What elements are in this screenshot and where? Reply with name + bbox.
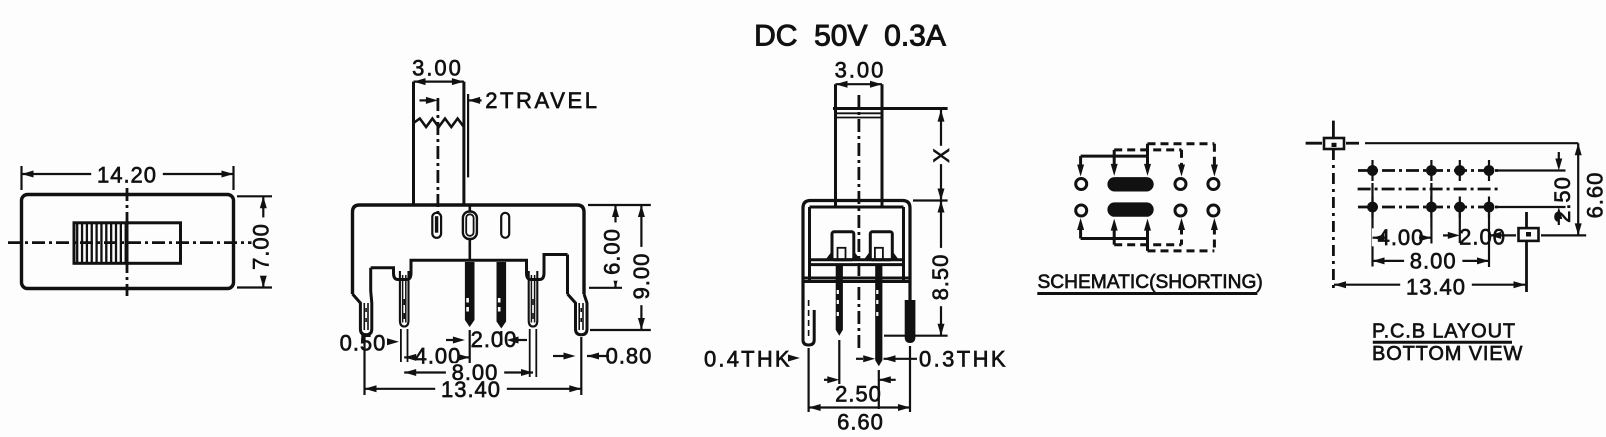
schematic bottom solid wire: [1081, 237, 1148, 240]
side ext line body top: [913, 199, 948, 201]
top view body outline: [22, 195, 234, 289]
side frame inner top: [810, 206, 904, 209]
front pin 2 (black): [465, 262, 475, 327]
svg-text:2.50: 2.50: [1550, 176, 1575, 223]
side stem right edge: [881, 84, 884, 207]
pcb mount hole 1 symbol: [1324, 138, 1344, 149]
front body outline: [353, 205, 585, 294]
side dim X: [940, 110, 942, 201]
front ext line left leg: [363, 337, 365, 395]
pcb pad top row 3: [1454, 165, 1465, 176]
pcb mount hole 2 leader line: [1541, 234, 1586, 236]
side left leg: [803, 310, 814, 345]
dim 14.20 extension lines: [20, 166, 22, 190]
schematic top wire to bar left: [1113, 150, 1116, 168]
svg-text:6.60: 6.60: [1582, 172, 1606, 219]
schematic top solid wire: [1081, 155, 1148, 158]
pcb pad top row 2: [1426, 165, 1437, 176]
schematic bottom dashed wire pos2: [1114, 243, 1181, 246]
pcb dim 8.00: [1373, 260, 1490, 262]
front dim 3.00 line: [414, 80, 464, 82]
front ext line foot bottom: [590, 329, 651, 331]
schematic shorting bar bottom: [1107, 202, 1153, 216]
front slot 2 (stem cross-section): [463, 212, 477, 240]
pcb mount hole 1 v-centerline: [1332, 121, 1335, 138]
pcb ext line pad2: [1430, 183, 1432, 244]
front ext line body top right: [588, 204, 651, 206]
front ext line pin4: [529, 329, 531, 377]
schematic shorting bar top: [1107, 177, 1153, 191]
front dim 2.00: [446, 339, 453, 341]
pcb title underline: [1373, 341, 1512, 344]
svg-text:8.50: 8.50: [928, 254, 953, 301]
pcb mount hole 2 symbol: [1519, 228, 1539, 241]
dim 14.20 line: [22, 173, 234, 175]
front ext line pin2: [469, 330, 471, 363]
dim 7.00 line: [262, 196, 264, 287]
front stem right edge: [462, 82, 465, 205]
front right leg slot: [578, 303, 580, 330]
front stem left edge: [412, 82, 415, 205]
side dim 6.60 ext lines: [807, 348, 809, 412]
front dim 13.40: [365, 388, 582, 390]
front pin 4: [529, 271, 538, 327]
schematic top dashed wire pos3: [1148, 142, 1215, 145]
svg-text:3.00: 3.00: [835, 57, 886, 82]
svg-text:X: X: [929, 147, 954, 163]
front dim 4.00: [409, 347, 467, 365]
front right leg: [568, 294, 588, 335]
top view horizontal centerline: [8, 241, 252, 244]
svg-text:13.40: 13.40: [441, 377, 501, 402]
front travel arrows: [426, 97, 438, 104]
dim 14.20 text: [91, 166, 163, 184]
svg-text:13.40: 13.40: [1406, 274, 1466, 299]
pcb top row centerline: [1358, 169, 1500, 172]
side stem top line: [833, 107, 948, 110]
schematic terminal 4 top: [1208, 179, 1219, 190]
pcb mount hole 2 v-centerline: [1525, 212, 1528, 228]
svg-text:3.00: 3.00: [412, 55, 463, 80]
pcb middle centerline: [1358, 188, 1500, 191]
front stem break zigzag: [414, 119, 464, 128]
side contact post right: [870, 232, 892, 260]
front internal stem line: [468, 205, 471, 212]
front left leg slot: [363, 303, 365, 330]
svg-text:2.00: 2.00: [1459, 224, 1506, 249]
schematic bottom dashed wire pos3: [1148, 249, 1215, 252]
side dim 8.50: [940, 201, 942, 336]
pcb ext line bottom row (2.50): [1497, 206, 1566, 208]
side dim 2.50 ext lines: [838, 340, 840, 384]
front pin 3 (black): [497, 262, 507, 329]
front left leg: [353, 291, 372, 335]
front dim 9.00: [640, 205, 642, 330]
pcb pad top row 1: [1367, 165, 1378, 176]
front ext line pin1: [400, 329, 402, 362]
pcb dim 2.00: [1448, 232, 1460, 239]
svg-text:P.C.B LAYOUT: P.C.B LAYOUT: [1372, 320, 1516, 342]
pcb ext line pad1: [1371, 183, 1373, 267]
schematic top dashed wire pos2: [1114, 148, 1181, 151]
svg-text:0.3THK: 0.3THK: [919, 346, 1008, 371]
pcb dim 2.50: [1558, 152, 1560, 161]
svg-text:2TRAVEL: 2TRAVEL: [485, 88, 599, 113]
schematic terminal 3 top: [1175, 179, 1186, 190]
side frame outline: [803, 201, 910, 311]
pcb pad bottom row 4: [1484, 202, 1495, 213]
front plate right inner edge: [566, 255, 569, 295]
pcb ext line pad3: [1459, 213, 1461, 243]
top view slider knob (hatched): [74, 223, 127, 263]
svg-text:2.50: 2.50: [835, 381, 882, 406]
side post inner pin right: [875, 248, 883, 260]
pcb top extension line (6.60): [1346, 142, 1359, 145]
pcb bottom row centerline: [1358, 206, 1500, 209]
pcb dim 6.60: [1577, 143, 1579, 235]
side base plate: [810, 258, 904, 261]
side frame inner right: [902, 207, 905, 281]
top view knob window: [127, 223, 181, 263]
svg-text:14.20: 14.20: [97, 162, 157, 187]
schematic terminal 4 bottom: [1208, 205, 1219, 216]
pcb pad bottom row 1: [1367, 202, 1378, 213]
top view vertical centerline: [126, 188, 129, 296]
svg-text:DC 50V 0.3A: DC 50V 0.3A: [754, 20, 946, 53]
svg-text:6.60: 6.60: [837, 409, 884, 434]
pcb ext line top row (2.50): [1497, 169, 1566, 171]
svg-text:0.4THK: 0.4THK: [704, 346, 792, 371]
svg-text:BOTTOM VIEW: BOTTOM VIEW: [1372, 343, 1523, 365]
front ext line frame bottom: [589, 287, 622, 289]
side dim 3.00 line: [836, 83, 883, 85]
side ext line pin bottom: [884, 335, 948, 337]
dim 7.00 extension lines: [237, 195, 272, 197]
side contact post left: [832, 232, 854, 260]
pcb mount hole 1 h-centerline: [1306, 142, 1322, 145]
side stem cap lines: [836, 112, 882, 114]
side stem centerline: [858, 95, 861, 350]
svg-text:0.50: 0.50: [340, 330, 387, 355]
side dim 2.50 arrows: [824, 379, 828, 381]
side right leg (black): [905, 300, 916, 343]
side label 0.3THK: [856, 358, 863, 360]
schematic terminal 1 top: [1076, 179, 1087, 190]
schematic title underline: [1037, 292, 1257, 295]
schematic terminal 1 bottom: [1076, 205, 1087, 216]
front plate bottom edge: [371, 255, 568, 280]
front stem centerline: [436, 98, 439, 216]
front dim 8.00: [404, 371, 533, 373]
svg-text:0.80: 0.80: [606, 343, 653, 368]
dim 7.00 text: [252, 217, 270, 275]
pcb pad bottom row 3: [1454, 202, 1465, 213]
pcb pad bottom row 2: [1426, 202, 1437, 213]
front pin 1: [400, 271, 409, 327]
svg-text:7.00: 7.00: [248, 223, 273, 270]
side post foot flares: [826, 251, 833, 260]
svg-text:SCHEMATIC(SHORTING): SCHEMATIC(SHORTING): [1038, 272, 1263, 293]
side pin row1 (short): [836, 266, 843, 336]
front dim 0.80: [564, 353, 576, 360]
front travel extension line: [467, 94, 469, 177]
front slot 1: [432, 213, 441, 238]
svg-text:8.00: 8.00: [1410, 248, 1457, 273]
pcb ext line pad4: [1488, 213, 1490, 267]
front ext line pin3: [500, 331, 502, 345]
front slot 3: [501, 213, 509, 238]
side dim 6.60 line: [809, 406, 910, 408]
side pin row2 (long): [875, 266, 882, 366]
svg-text:9.00: 9.00: [629, 253, 654, 300]
svg-text:2.00: 2.00: [471, 327, 518, 352]
front dim 6.00: [614, 205, 616, 288]
side frame inner left: [808, 207, 811, 281]
pcb pad top row 4: [1484, 165, 1495, 176]
side frame bottom lines: [803, 277, 910, 280]
side post inner pin left: [838, 248, 846, 260]
schematic bottom wire to bar left: [1113, 227, 1116, 245]
pcb dim 4.00: [1372, 228, 1430, 246]
front plate left inner edge: [369, 268, 372, 291]
pcb dim 13.40: [1334, 284, 1526, 286]
front ext line right leg: [580, 337, 582, 395]
side stem left edge: [834, 84, 837, 207]
svg-text:6.00: 6.00: [599, 228, 624, 275]
schematic terminal 3 bottom: [1175, 205, 1186, 216]
